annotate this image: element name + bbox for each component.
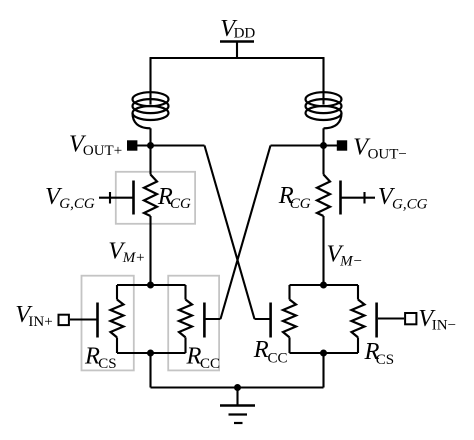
svg-text:CS: CS (376, 352, 394, 368)
svg-text:IN+: IN+ (28, 314, 52, 330)
svg-text:CS: CS (98, 356, 116, 372)
svg-text:M+: M+ (122, 250, 146, 266)
svg-text:M−: M− (339, 253, 363, 269)
svg-text:CC: CC (200, 356, 220, 372)
svg-text:DD: DD (234, 26, 256, 42)
svg-text:OUT+: OUT+ (83, 143, 122, 159)
svg-text:G,CG: G,CG (59, 196, 95, 212)
svg-text:CG: CG (290, 196, 311, 212)
svg-text:CG: CG (170, 196, 191, 212)
svg-text:CC: CC (268, 350, 288, 366)
svg-text:R: R (253, 336, 269, 363)
svg-text:G,CG: G,CG (392, 196, 428, 212)
svg-text:IN−: IN− (432, 318, 456, 334)
svg-text:OUT−: OUT− (368, 146, 407, 162)
